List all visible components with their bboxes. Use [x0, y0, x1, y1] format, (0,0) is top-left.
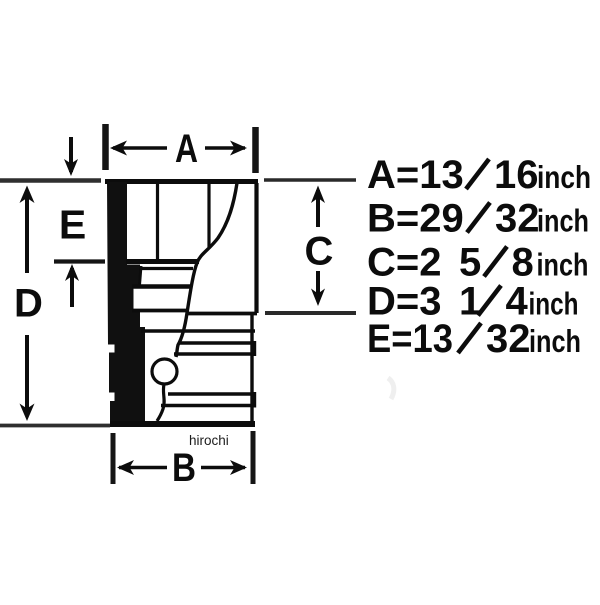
dim A left tick [102, 124, 109, 170]
band1 bottom line [132, 284, 192, 288]
band2 bottom line [132, 309, 188, 313]
dim B left arrowhead [117, 460, 134, 475]
dim D upper arrow (up) [25, 191, 29, 273]
spec text line A [367, 153, 591, 361]
svg-text:E=13: E=13 [367, 317, 453, 361]
dim A right tick [252, 127, 259, 173]
svg-text:inch: inch [529, 286, 579, 322]
band1 left edge [140, 266, 142, 285]
facet line 2 [207, 183, 210, 247]
bottom extension line [0, 424, 110, 428]
dim D lower arrow (down) [25, 335, 29, 416]
band3 bottom line [141, 329, 255, 333]
svg-text:inch: inch [537, 203, 589, 239]
svg-text:hirochi: hirochi [189, 433, 229, 448]
band1 top line [140, 267, 193, 270]
svg-text:B: B [172, 446, 196, 490]
svg-text:inch: inch [537, 247, 589, 283]
dim A left arrowhead [110, 141, 127, 156]
C bottom extension line [265, 311, 356, 315]
socket right edge lower [250, 313, 253, 421]
top extension line [0, 178, 101, 182]
silhouette curve lower [157, 385, 164, 422]
ring2 top line [168, 392, 255, 396]
svg-text:16: 16 [494, 153, 539, 197]
svg-text:5: 5 [459, 241, 481, 285]
ring1 top line [178, 341, 255, 344]
dim A right arrowhead [230, 141, 247, 156]
detent ball circle [152, 359, 177, 384]
ring1 right edge [253, 341, 256, 356]
svg-text:1: 1 [459, 280, 481, 324]
dim A line left segment [113, 146, 167, 149]
dim B right arrowhead [230, 460, 247, 475]
dim B line left segment [119, 466, 167, 469]
dim E top arrow (down) [69, 137, 73, 172]
ring1 bottom line [174, 352, 255, 356]
socket left wall (black) [107, 182, 145, 421]
facet line 1 [156, 183, 159, 263]
faint smudge [388, 378, 394, 399]
svg-text:C=2: C=2 [367, 241, 442, 285]
svg-text:D: D [14, 282, 43, 326]
dim C lower arrow (down) [316, 271, 320, 301]
dim A line right segment [205, 146, 245, 149]
svg-text:inch: inch [529, 323, 581, 359]
dim E bottom arrow (up) [70, 268, 74, 307]
silhouette curve upper [176, 183, 237, 357]
right face line at C bottom [187, 312, 257, 316]
socket bottom edge [110, 421, 255, 427]
svg-text:B=29: B=29 [367, 197, 464, 241]
dim C upper arrow (up) [316, 190, 320, 227]
dim E reference line [54, 259, 105, 263]
svg-text:C: C [305, 230, 334, 274]
dim B right tick [251, 431, 256, 484]
ring2 bottom line [161, 404, 255, 408]
svg-text:32: 32 [486, 317, 531, 361]
svg-text:A=13: A=13 [367, 153, 464, 197]
hex bottom line [126, 259, 199, 264]
dim B line right segment [201, 466, 245, 469]
C top extension line [264, 178, 356, 181]
ring2 right edge [253, 392, 256, 408]
dim B left tick [111, 433, 116, 484]
svg-text:A: A [175, 127, 198, 171]
svg-text:E: E [59, 202, 86, 248]
svg-text:inch: inch [537, 159, 591, 195]
socket top edge [105, 179, 258, 184]
svg-text:32: 32 [495, 197, 540, 241]
socket right edge upper [254, 183, 258, 313]
svg-text:8: 8 [512, 241, 534, 285]
